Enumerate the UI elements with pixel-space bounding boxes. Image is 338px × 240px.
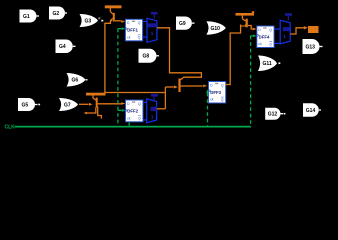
- gate G1: [20, 10, 40, 23]
- svg-text:1: 1: [151, 115, 154, 120]
- wire M1 output: [157, 28, 202, 77]
- output port: [308, 26, 319, 33]
- svg-text:Q: Q: [138, 21, 141, 25]
- transistor T2: [84, 93, 122, 119]
- svg-text:G13: G13: [306, 44, 316, 50]
- D flip-flop DFF2: [126, 100, 144, 122]
- svg-text:DFF3: DFF3: [210, 90, 221, 95]
- wire Qbar DFF2 to M2: [143, 119, 147, 121]
- gate G12: [265, 108, 285, 120]
- svg-text:G5: G5: [22, 102, 29, 108]
- svg-text:ck: ck: [210, 98, 214, 102]
- svg-text:G3: G3: [85, 18, 92, 24]
- svg-text:1: 1: [151, 31, 154, 36]
- wire DFF3 Q up to T4 emitter: [226, 25, 241, 85]
- svg-text:G11: G11: [263, 61, 272, 67]
- clock riser x118 (to DFF1 and DFF2): [117, 29, 119, 126]
- clock rail: [15, 126, 251, 128]
- gate G13: [303, 39, 323, 54]
- D flip-flop DFF4: [257, 26, 274, 48]
- wire M2 output to node x166: [157, 108, 166, 110]
- gate G7: [59, 98, 78, 111]
- svg-text:DFF4: DFF4: [259, 34, 270, 39]
- wire G7 output to T2 gate: [79, 103, 89, 105]
- svg-text:G14: G14: [306, 108, 316, 114]
- gate G3: [80, 14, 104, 27]
- svg-text:G10: G10: [211, 26, 221, 32]
- svg-text:DFF2: DFF2: [127, 108, 138, 113]
- svg-text:G8: G8: [143, 54, 150, 60]
- wire M3 output to port: [290, 28, 304, 34]
- svg-text:G9: G9: [179, 21, 186, 27]
- mux M3: [280, 13, 292, 44]
- svg-text:G12: G12: [268, 112, 278, 118]
- wire Q DFF1 to M1: [143, 21, 147, 23]
- svg-text:CLK: CLK: [5, 125, 16, 131]
- mux M2: [147, 94, 158, 123]
- gate G14: [303, 103, 321, 117]
- clock riser x250.6 (to DFF4): [250, 36, 252, 127]
- svg-text:G4: G4: [59, 44, 66, 50]
- wire clock into DFF2: [118, 109, 122, 111]
- gate G2: [49, 7, 67, 20]
- svg-text:Q: Q: [138, 117, 141, 121]
- svg-text:G7: G7: [64, 102, 71, 108]
- gate G10: [206, 21, 225, 34]
- clock riser x207.5 (to DFF3): [207, 93, 209, 126]
- wire Q DFF2 to M2: [143, 101, 147, 103]
- svg-text:Q: Q: [138, 36, 141, 40]
- svg-text:Q: Q: [221, 83, 224, 87]
- svg-text:G1: G1: [23, 14, 30, 20]
- D flip-flop DFF3: [209, 82, 226, 104]
- gate G6: [67, 73, 88, 87]
- wire D input DFF1: [121, 20, 125, 23]
- wire Q DFF4 to M3: [274, 28, 280, 30]
- wire T1 emitter down to T2 bar: [105, 21, 111, 93]
- svg-text:Q: Q: [269, 42, 272, 46]
- wire node x166 vertical (t3 gate / mux2 out): [164, 87, 166, 109]
- mux M1: [147, 12, 158, 42]
- svg-text:Q: Q: [221, 98, 224, 102]
- gate G8: [139, 49, 160, 63]
- gate G11: [258, 56, 280, 72]
- wire Qbar DFF4 to M3: [274, 42, 280, 44]
- D flip-flop DFF1: [125, 19, 142, 41]
- wire D input DFF2: [121, 102, 125, 105]
- svg-text:G6: G6: [72, 78, 79, 84]
- wire clock into DFF1: [118, 28, 121, 30]
- gate G9: [176, 17, 195, 30]
- clock stub under DFF2: [128, 123, 130, 126]
- svg-text:G2: G2: [53, 11, 60, 17]
- svg-text:Q: Q: [138, 102, 141, 106]
- gate G5: [18, 98, 40, 111]
- svg-text:ck: ck: [127, 36, 131, 40]
- svg-text:Q: Q: [269, 28, 272, 32]
- svg-text:ck: ck: [127, 116, 131, 120]
- wire D input DFF4: [253, 28, 257, 31]
- gate G4: [56, 40, 76, 54]
- wire clock into DFF4: [251, 35, 253, 37]
- wire W from T2 bar to node x166: [104, 92, 165, 94]
- transistor T3: [165, 77, 207, 92]
- svg-text:DFF1: DFF1: [127, 28, 138, 33]
- node G3 output label: [98, 17, 100, 19]
- transistor T1: [105, 5, 122, 21]
- wire Qbar DFF1 to M1: [143, 36, 147, 38]
- transistor T4: [236, 11, 255, 29]
- svg-text:1: 1: [283, 34, 286, 39]
- svg-text:ck: ck: [258, 42, 262, 46]
